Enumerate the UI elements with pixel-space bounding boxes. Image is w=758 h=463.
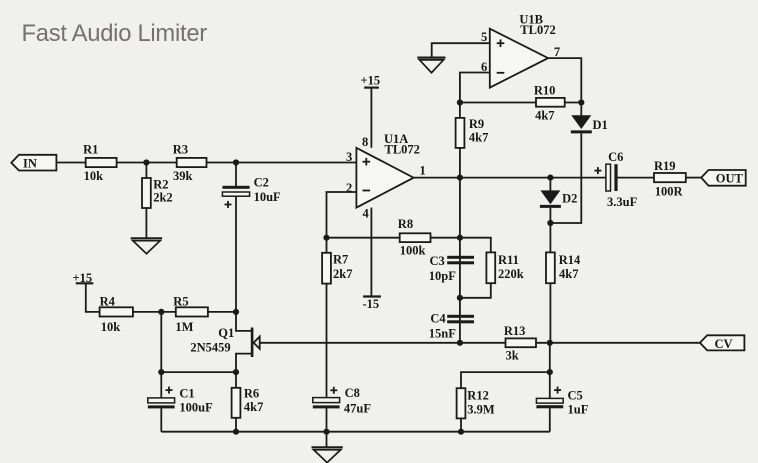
svg-text:3: 3 (346, 150, 352, 164)
capacitor C2 (222, 176, 281, 208)
transistor Q1 2N5459 (190, 312, 259, 372)
resistor R14 (546, 252, 581, 283)
svg-text:100R: 100R (655, 184, 684, 198)
svg-text:39k: 39k (173, 169, 193, 183)
wire R7 down to C8 (326, 284, 328, 398)
op-amp U1A (346, 132, 426, 221)
wire C1 bottom to ground rail (160, 408, 162, 431)
capacitor C5 (536, 387, 588, 417)
svg-text:15nF: 15nF (429, 327, 456, 341)
node B junction (233, 159, 239, 165)
svg-text:C2: C2 (254, 176, 269, 190)
resistor R13 (504, 324, 536, 362)
diode D2 (540, 190, 577, 206)
connector OUT (701, 170, 746, 186)
capacitor C1 (148, 387, 213, 415)
svg-text:5: 5 (481, 30, 487, 44)
svg-text:CV: CV (715, 337, 733, 351)
wire C1 rail down (160, 312, 162, 398)
svg-text:3.3uF: 3.3uF (607, 195, 638, 209)
svg-text:4k7: 4k7 (535, 108, 554, 122)
svg-text:R19: R19 (654, 159, 676, 173)
wire IN to R1 (56, 162, 85, 164)
wire D2 cathode (549, 208, 551, 223)
+15 supply above U1A (361, 73, 381, 87)
svg-text:2k7: 2k7 (333, 267, 352, 281)
wire R6 top (235, 372, 237, 388)
node R8 rail junction (457, 235, 463, 241)
wire D2 anode (549, 178, 551, 191)
wire +15 to U1A pin8 (370, 88, 372, 148)
node R13 R14 junction (547, 340, 553, 346)
node R9 bottom on main line (457, 175, 463, 181)
node C4 bottom on CV line (457, 340, 463, 346)
resistor R8 (398, 217, 431, 258)
wire R12 top (461, 372, 550, 388)
resistor R7 (322, 253, 352, 284)
resistor R9 (456, 117, 489, 148)
svg-text:3k: 3k (506, 349, 519, 363)
op-amp U1B (481, 13, 560, 88)
node R12 line on C5 rail (547, 369, 553, 375)
wire R9 rail down through C3 C4 (459, 148, 461, 343)
svg-text:TL072: TL072 (385, 142, 420, 156)
svg-text:D2: D2 (562, 192, 577, 206)
wire U1B pin5 to ground (432, 43, 490, 57)
svg-text:4: 4 (363, 207, 370, 221)
svg-text:C3: C3 (430, 254, 445, 268)
wire R6 bottom (235, 418, 237, 432)
svg-text:C6: C6 (608, 150, 623, 164)
resistor R4 (100, 295, 133, 334)
wire R2 to ground (145, 208, 147, 238)
wire R19 to OUT (686, 177, 701, 179)
svg-text:R7: R7 (333, 253, 348, 267)
svg-text:2k2: 2k2 (153, 191, 172, 205)
svg-text:C1: C1 (179, 387, 194, 401)
wire ground rail (161, 431, 550, 433)
svg-text:4k7: 4k7 (244, 400, 263, 414)
wire R1 to node A (117, 162, 177, 164)
wire R8 to rail (431, 237, 460, 239)
node R7 top junction (323, 235, 329, 241)
node pin6 R10 R9 junction (457, 99, 463, 105)
resistor R6 (232, 387, 264, 418)
wire R10 to D1 rail (565, 102, 582, 104)
svg-text:2N5459: 2N5459 (190, 340, 230, 354)
wire C5 rail (549, 343, 551, 399)
svg-text:3.9M: 3.9M (467, 403, 495, 417)
-15 supply below U1A (363, 297, 381, 312)
ground at U1B pin5 (417, 58, 445, 73)
svg-text:R5: R5 (173, 295, 188, 309)
svg-text:R13: R13 (504, 324, 526, 338)
svg-text:10pF: 10pF (429, 269, 456, 283)
svg-text:C4: C4 (430, 312, 446, 326)
node R4 R5 junction (158, 309, 164, 315)
svg-text:1: 1 (420, 164, 426, 178)
svg-text:47uF: 47uF (344, 402, 371, 416)
resistor R3 (173, 142, 207, 183)
wire R5 to C2 rail (208, 311, 236, 313)
node R12 ground junction (458, 429, 464, 435)
wire junction to R7 (326, 238, 328, 253)
svg-text:C8: C8 (345, 386, 360, 400)
node Q1 source junction (233, 369, 239, 375)
wire U1A pin2 left and down (327, 192, 357, 238)
svg-text:R12: R12 (467, 389, 489, 403)
node A junction (143, 159, 149, 165)
svg-text:D1: D1 (593, 118, 608, 132)
resistor R2 (142, 177, 173, 208)
svg-text:R8: R8 (398, 217, 413, 231)
svg-text:C5: C5 (568, 388, 583, 402)
node D1 top junction (578, 99, 584, 105)
svg-text:Q1: Q1 (218, 326, 234, 340)
svg-text:R9: R9 (469, 117, 484, 131)
node C8 ground junction (323, 429, 329, 435)
ground main (312, 447, 343, 462)
svg-text:R6: R6 (244, 387, 259, 401)
svg-text:10k: 10k (84, 169, 104, 183)
wire C1 node to Q1 source node (161, 371, 236, 373)
svg-text:R1: R1 (83, 142, 98, 156)
wire C2 down to Q1 node (235, 196, 237, 312)
svg-text:TL072: TL072 (520, 23, 555, 37)
wire to main ground symbol (326, 432, 328, 448)
capacitor C3 (429, 254, 474, 283)
node D2 anode on main line (547, 175, 553, 181)
wire C8 bottom (326, 408, 328, 431)
svg-text:7: 7 (554, 45, 560, 59)
wire R8 line (327, 237, 400, 239)
svg-text:1uF: 1uF (568, 403, 589, 417)
wire R14 bottom to CV line (549, 283, 551, 343)
node Q1 drain junction (233, 309, 239, 315)
wire R10 line left part (460, 102, 536, 104)
svg-text:10k: 10k (101, 320, 121, 334)
wire U1B pin7 to D1 (548, 58, 581, 102)
svg-text:1M: 1M (175, 320, 193, 334)
diode D1 (571, 115, 608, 132)
resistor R1 (83, 142, 117, 183)
capacitor C4 (429, 312, 474, 341)
wire node A to R2 (145, 163, 147, 179)
wire R9 top (459, 103, 461, 118)
svg-text:+15: +15 (361, 73, 381, 87)
title Fast Audio Limiter (22, 20, 208, 47)
wire +15 down to R4 (86, 283, 100, 312)
resistor R11 (486, 252, 523, 283)
svg-text:OUT: OUT (716, 171, 744, 185)
wire R13 to CV connector (536, 342, 700, 344)
wire D1 cathode down and left to R14 node (550, 133, 581, 223)
capacitor C6 (594, 150, 637, 209)
wire C5 bottom to ground rail (549, 408, 551, 431)
svg-text:R14: R14 (559, 253, 581, 267)
wire C6 to R19 (618, 177, 654, 179)
wire U1A pin4 to -15 (370, 208, 372, 297)
wire R14 top (549, 223, 551, 252)
resistor R19 (654, 159, 686, 198)
svg-text:R11: R11 (498, 253, 519, 267)
svg-text:Fast Audio Limiter: Fast Audio Limiter (22, 20, 208, 47)
resistor R12 (457, 388, 495, 418)
node C3 bottom R11 junction (457, 295, 463, 301)
wire node B to C2 (235, 163, 237, 187)
svg-text:R10: R10 (534, 83, 556, 97)
ground under R2 (131, 238, 162, 253)
wire R4 to R5 (133, 311, 176, 313)
svg-text:8: 8 (362, 135, 368, 149)
wire gate CV line left part (260, 342, 506, 344)
svg-text:R4: R4 (100, 295, 116, 309)
wire D1 anode (580, 103, 582, 116)
svg-text:10uF: 10uF (254, 190, 281, 204)
svg-text:IN: IN (23, 156, 37, 170)
wire R11 bottom stub (460, 283, 491, 298)
connector CV (700, 335, 745, 351)
svg-text:R3: R3 (173, 142, 188, 156)
connector IN (11, 155, 56, 171)
+15 supply at R4 (73, 271, 94, 285)
svg-text:R2: R2 (153, 177, 168, 191)
resistor R5 (173, 295, 208, 334)
wire U1A output main line (414, 177, 606, 179)
svg-text:-15: -15 (363, 297, 380, 311)
node C1 top junction (158, 369, 164, 375)
capacitor C8 (313, 386, 372, 416)
wire U1B pin6 left and down (460, 73, 490, 103)
svg-text:4k7: 4k7 (469, 130, 488, 144)
node R6 ground junction (233, 429, 239, 435)
resistor R10 (534, 83, 565, 122)
wire R3 to U1A pin3 (207, 162, 357, 164)
wire R11 top stub (460, 238, 491, 253)
wire R12 bottom (460, 418, 462, 431)
svg-text:220k: 220k (498, 267, 524, 281)
svg-text:100uF: 100uF (179, 400, 213, 414)
svg-text:100k: 100k (400, 244, 426, 258)
svg-text:4k7: 4k7 (559, 267, 578, 281)
node D2 R14 junction (547, 220, 553, 226)
